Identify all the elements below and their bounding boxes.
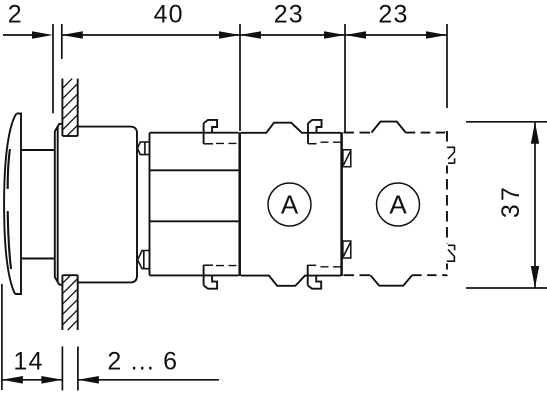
svg-text:23: 23 [274,1,304,29]
svg-text:A: A [389,189,407,219]
svg-text:14: 14 [13,347,43,375]
svg-text:37: 37 [497,184,525,218]
svg-text:40: 40 [154,1,184,29]
svg-text:2 ... 6: 2 ... 6 [107,347,178,375]
svg-text:A: A [281,189,299,219]
svg-text:23: 23 [378,1,408,29]
svg-text:2: 2 [8,1,23,29]
